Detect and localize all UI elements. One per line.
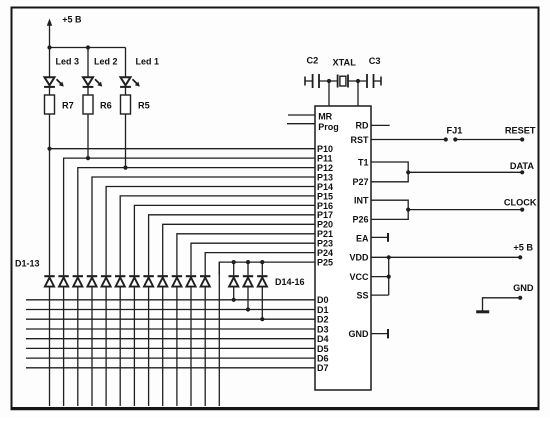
svg-text:GND: GND (349, 329, 370, 339)
svg-text:P20: P20 (317, 220, 333, 230)
svg-text:P15: P15 (317, 191, 333, 201)
svg-text:P26: P26 (352, 215, 368, 225)
svg-text:D0: D0 (317, 295, 329, 305)
svg-text:D2: D2 (317, 315, 329, 325)
svg-text:R7: R7 (62, 101, 74, 111)
svg-text:+5 B: +5 B (62, 15, 82, 25)
svg-text:Prog: Prog (318, 122, 339, 132)
svg-text:INT: INT (354, 196, 369, 206)
svg-text:Led 3: Led 3 (56, 57, 80, 67)
svg-text:GND: GND (513, 283, 534, 293)
svg-text:D14-16: D14-16 (275, 277, 305, 287)
svg-text:R6: R6 (100, 101, 112, 111)
svg-text:+5 B: +5 B (513, 242, 533, 252)
svg-text:D4: D4 (317, 334, 329, 344)
svg-text:SS: SS (356, 290, 368, 300)
svg-text:P27: P27 (352, 177, 368, 187)
svg-text:MR: MR (318, 112, 332, 122)
svg-text:P11: P11 (317, 154, 333, 164)
svg-text:CLOCK: CLOCK (504, 198, 537, 208)
svg-text:Led 1: Led 1 (136, 57, 160, 67)
svg-text:C2: C2 (307, 56, 319, 66)
svg-text:P17: P17 (317, 210, 333, 220)
svg-text:EA: EA (356, 233, 369, 243)
svg-text:XTAL: XTAL (333, 58, 357, 68)
svg-text:D1: D1 (317, 305, 329, 315)
svg-text:R5: R5 (138, 101, 150, 111)
svg-text:RESET: RESET (505, 125, 536, 135)
svg-text:FJ1: FJ1 (447, 126, 463, 136)
svg-text:RD: RD (356, 121, 369, 131)
svg-text:D1-13: D1-13 (15, 258, 40, 268)
svg-text:D3: D3 (317, 324, 329, 334)
svg-text:D7: D7 (317, 363, 329, 373)
svg-text:P13: P13 (317, 172, 333, 182)
svg-text:RST: RST (351, 135, 370, 145)
svg-text:C3: C3 (369, 56, 381, 66)
svg-text:D5: D5 (317, 344, 329, 354)
svg-text:VCC: VCC (349, 272, 369, 282)
svg-text:T1: T1 (358, 157, 369, 167)
svg-text:D6: D6 (317, 354, 329, 364)
svg-text:Led 2: Led 2 (94, 57, 118, 67)
svg-text:P25: P25 (317, 258, 333, 268)
svg-text:DATA: DATA (510, 161, 535, 171)
svg-text:P24: P24 (317, 248, 333, 258)
svg-text:VDD: VDD (349, 253, 369, 263)
